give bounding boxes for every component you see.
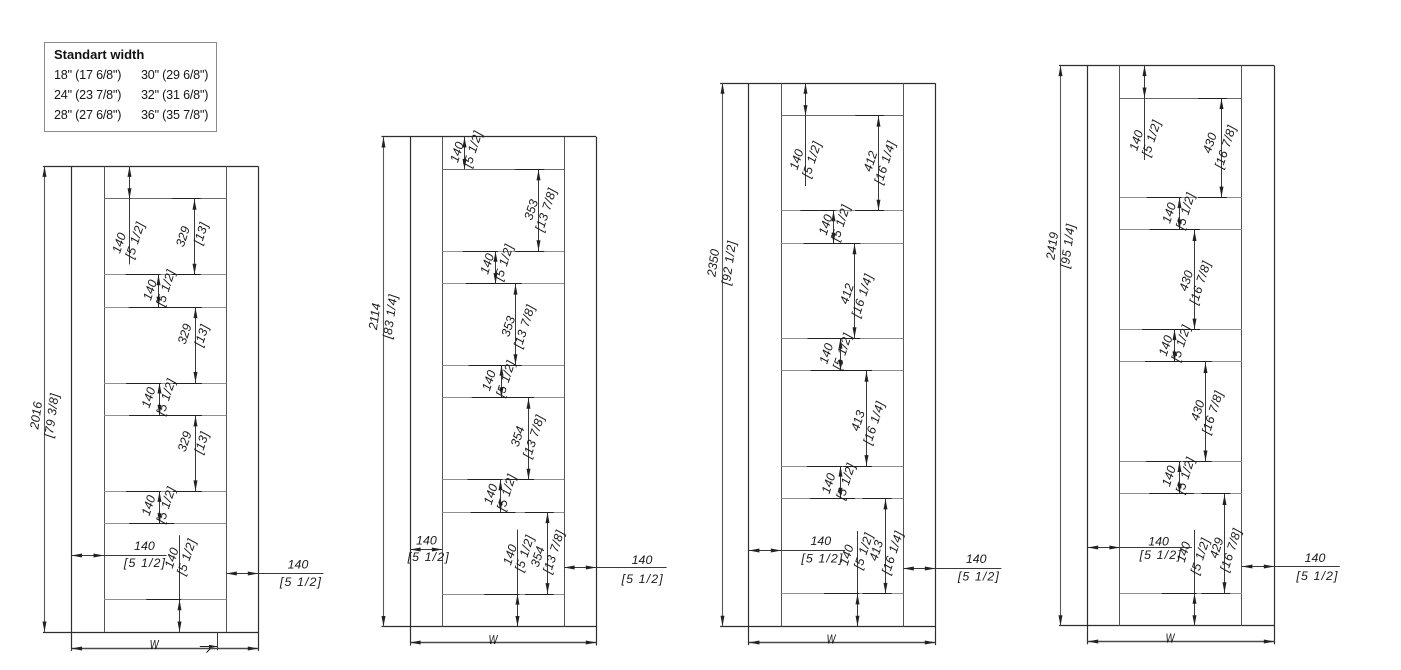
door 1 left stile inner edge [104, 166, 106, 632]
dimension 140 rail 4 door 2 [468, 472, 519, 513]
dimension 140 right stile door 4 [1242, 551, 1340, 583]
dimension 140 left stile door 1 [72, 539, 167, 570]
svg-text:[13]: [13] [191, 430, 212, 457]
dimension panel 1 (329) door 1 [172, 199, 211, 275]
dimension 140 rail 4 door 4 [1146, 455, 1198, 496]
dimension 140 bottom rail door 1 [146, 535, 199, 632]
door 3 right stile inner edge [903, 83, 905, 626]
svg-text:[5 1/2]: [5 1/2] [153, 485, 178, 526]
dimension W width door 4 [1088, 631, 1275, 646]
dimension panel 4 (413) door 3 [863, 498, 907, 593]
door 2 right stile inner edge [564, 137, 566, 627]
dimension panel 2 (412) door 3 [831, 243, 876, 338]
dimension panel 4 (429) door 4 [1201, 494, 1244, 594]
dimension panel 3 (413) door 3 [843, 371, 888, 467]
svg-text:140: 140 [416, 534, 437, 548]
dimension 140 rail 2 door 2 [463, 242, 517, 283]
svg-text:[5 1/2]: [5 1/2] [621, 572, 664, 586]
svg-text:W: W [489, 632, 499, 647]
dimension 140 right stile door 1 [226, 558, 323, 590]
dimension 140 left stile door 2 [407, 534, 450, 565]
dimension 140 top rail door 4 [1127, 66, 1164, 160]
dimension W width door 2 [410, 632, 596, 647]
dimension W width door 3 [749, 632, 935, 647]
dimension height 2350 door 3 [704, 83, 739, 626]
svg-text:[5 1/2]: [5 1/2] [1139, 548, 1182, 562]
svg-text:[5 1/2]: [5 1/2] [279, 575, 322, 589]
door 3 left stile inner edge [781, 83, 783, 626]
dimension panel 2 (353) door 2 [493, 284, 538, 366]
door 4 right stile inner edge [1241, 66, 1243, 626]
dimension 140 bottom rail door 3 [824, 531, 876, 626]
svg-text:140: 140 [810, 534, 831, 548]
dimension 140 rail 4 door 1 [126, 485, 178, 526]
svg-text:W: W [150, 637, 160, 652]
dimension panel 2 (329) door 1 [173, 307, 212, 383]
door 3 rails (horizontal members) [781, 116, 903, 594]
svg-text:[5 1/2]: [5 1/2] [1295, 569, 1338, 583]
door 2 rails (horizontal members) [442, 170, 564, 595]
dimension 140 rail 3 door 3 [808, 331, 856, 372]
svg-text:[5 1/2]: [5 1/2] [833, 461, 858, 502]
svg-text:140: 140 [1148, 535, 1169, 549]
dimension 140 rail 3 door 4 [1142, 323, 1193, 364]
svg-text:140: 140 [288, 558, 309, 572]
svg-text:[5 1/2]: [5 1/2] [407, 550, 450, 564]
dimension 140 rail 3 door 2 [469, 359, 519, 400]
dimension height 2016 door 1 [27, 166, 62, 632]
svg-text:[16 1/4]: [16 1/4] [879, 529, 906, 577]
svg-text:[13]: [13] [191, 323, 212, 350]
door 1 outline (slab 2016 mm tall) [43, 166, 259, 651]
dimension height 2114 door 2 [366, 137, 401, 627]
dimension panel 2 (430) door 4 [1171, 230, 1214, 330]
svg-text:140: 140 [134, 539, 155, 553]
svg-text:[5 1/2]: [5 1/2] [153, 377, 178, 418]
dimension 140 left stile door 3 [749, 534, 845, 566]
svg-text:140: 140 [632, 553, 653, 567]
dimension panel 3 (354) door 2 [505, 398, 547, 480]
door 3 outline (slab 2350 mm tall) [720, 83, 935, 645]
door 2 outline (slab 2114 mm tall) [382, 137, 597, 646]
dimension 140 right stile door 2 [564, 553, 667, 586]
dimension 140 bottom rail door 4 [1162, 530, 1213, 626]
door 4 rails (horizontal members) [1120, 99, 1242, 594]
dimension 140 rail 2 door 4 [1147, 191, 1198, 232]
svg-text:[5 1/2]: [5 1/2] [123, 556, 166, 570]
svg-text:W: W [827, 632, 837, 647]
svg-text:[5 1/2]: [5 1/2] [493, 359, 518, 400]
dimension height 2419 door 4 [1043, 66, 1078, 626]
svg-text:329: 329 [173, 224, 193, 248]
door 2 left stile inner edge [442, 137, 444, 627]
dimension 140 top rail door 1 [109, 166, 147, 264]
svg-text:140: 140 [1305, 551, 1326, 565]
svg-text:[5 1/2]: [5 1/2] [957, 570, 1000, 584]
svg-text:W: W [1166, 631, 1176, 646]
dimension 140 top rail door 3 [787, 83, 825, 186]
dimension 140 right stile door 3 [903, 552, 1001, 584]
dimension panel 3 (430) door 4 [1183, 362, 1226, 462]
dimension 140 rail 3 door 1 [126, 377, 178, 418]
dimension 140 rail 2 door 3 [801, 203, 854, 244]
Standart width legend box [44, 42, 217, 132]
dimension 140 left stile door 4 [1088, 535, 1192, 563]
dimension 140 top rail door 2 [447, 129, 485, 170]
door 4 left stile inner edge [1119, 66, 1121, 626]
dimension 140 rail 2 door 1 [126, 268, 179, 309]
door 1 rails (horizontal members) [104, 199, 226, 600]
svg-text:140: 140 [966, 552, 987, 566]
svg-text:[13]: [13] [191, 220, 212, 247]
door 4 outline (slab 2419 mm tall) [1059, 66, 1275, 645]
small auxiliary dimension near W line door 1 [200, 632, 218, 653]
dimension 140 bottom rail door 2 [484, 530, 537, 627]
dimension panel 3 (329) door 1 [173, 415, 212, 491]
svg-text:[92 1/2]: [92 1/2] [719, 240, 739, 287]
dimension panel 1 (353) door 2 [515, 169, 559, 251]
dimension 140 rail 4 door 3 [807, 461, 858, 502]
svg-text:[5 1/2]: [5 1/2] [800, 552, 843, 566]
dimension panel 1 (412) door 3 [855, 116, 898, 211]
dimension panel 4 (354) door 2 [525, 512, 568, 594]
dimension panel 1 (430) door 4 [1198, 98, 1239, 198]
dimension W width door 1 [72, 637, 259, 652]
door 1 right stile inner edge [226, 166, 228, 632]
